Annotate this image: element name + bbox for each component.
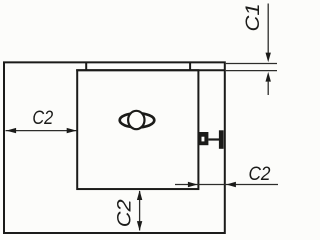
dimension C2 left line	[6, 130, 77, 132]
dimension C2 bottom up arrowhead	[137, 190, 142, 200]
dimension C2 left arrowhead right	[67, 128, 77, 133]
plug cable	[208, 138, 219, 140]
dimension C1 down arrowhead	[266, 53, 271, 63]
appliance (inner box)	[77, 70, 198, 189]
plug wall bar	[219, 130, 224, 149]
right tick between worktop lines	[189, 62, 191, 70]
svg-text:C2: C2	[114, 199, 136, 227]
dimension C1 up arrowhead	[266, 72, 271, 82]
burner eye outer ellipse	[120, 113, 155, 127]
burner eye inner ring	[128, 111, 144, 129]
dimension C1 lower tail	[267, 81, 269, 95]
cabinet outline (outer box)	[4, 62, 225, 233]
dimension C2 left arrowhead left	[6, 128, 16, 133]
svg-text:C2: C2	[249, 163, 271, 185]
svg-text:C1: C1	[242, 3, 264, 31]
plug notch	[202, 137, 205, 142]
dimension C2 right line	[175, 184, 278, 186]
dimension C2 bottom down arrowhead	[137, 221, 142, 231]
dimension C2 right arrowhead pointing right	[188, 182, 198, 187]
worktop/appliance top line	[76, 69, 225, 71]
dimension C1 upper shaft	[267, 4, 269, 54]
dimension C2 bottom shaft	[139, 191, 141, 231]
left tick between worktop lines	[85, 62, 87, 70]
svg-text:C2: C2	[32, 107, 53, 129]
dimension C2 right arrowhead pointing left	[226, 182, 236, 187]
plug body	[199, 132, 208, 145]
extension line lower (C1)	[226, 70, 277, 72]
extension line upper (C1)	[226, 63, 277, 65]
